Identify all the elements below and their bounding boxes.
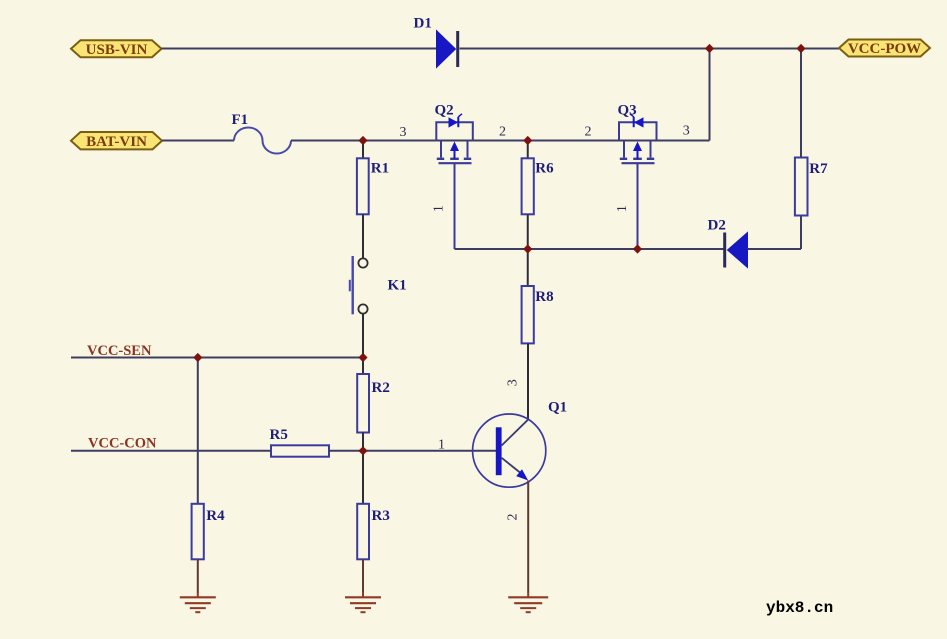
diode D1 <box>437 31 458 68</box>
power port flag BAT-VIN <box>71 132 162 150</box>
wire: R1 top lead <box>362 141 364 159</box>
wire: D1 cathode to VCC-POW flag <box>460 48 840 50</box>
junction dot rail / R6-R8 <box>523 244 532 253</box>
wire: Q1 emitter to ground <box>527 481 529 593</box>
wire: VCC-SEN row <box>71 357 363 359</box>
resistor R3 <box>357 504 369 560</box>
wire: Q2 to Q3 along BAT row <box>473 140 619 142</box>
wire: R8 bottom to Q1 collector <box>527 343 529 420</box>
svg-text:R3: R3 <box>372 508 390 524</box>
wire: R1 bottom to switch K1 <box>362 214 364 258</box>
svg-text:R2: R2 <box>372 380 390 396</box>
resistor R4 <box>192 504 204 560</box>
ground symbol under Q1 <box>508 592 548 612</box>
power port flag VCC-POW <box>839 40 930 58</box>
wire: BAT-VIN flag to fuse F1 <box>162 140 234 142</box>
junction dot VCC-SEN / K1-R2 <box>358 353 367 362</box>
wire: D2 anode to R7 column <box>748 248 802 250</box>
switch K1 <box>350 256 368 314</box>
diode D2 <box>725 233 748 268</box>
svg-text:BAT-VIN: BAT-VIN <box>86 134 147 150</box>
wire: R6 bottom to rail <box>527 214 529 249</box>
svg-text:1: 1 <box>432 205 447 212</box>
wire: R2 top lead <box>362 358 364 375</box>
junction dot R2/R3/R5 node <box>358 446 367 455</box>
resistor R7 <box>795 158 808 216</box>
wire: R5 to Q1 base <box>329 450 496 452</box>
transistor Q3 (P-MOSFET with body diode) <box>619 114 657 163</box>
svg-text:D1: D1 <box>414 16 432 32</box>
junction dot VCC-SEN / R4 <box>193 353 202 362</box>
transistor Q1 (NPN) <box>473 414 546 487</box>
wire: R3 top lead <box>362 451 364 504</box>
wire: fuse F1 to node at R1 <box>291 140 436 142</box>
wire: riser up to top wire <box>709 49 711 141</box>
wire: K1 bottom to VCC-SEN node <box>362 314 364 358</box>
svg-text:R1: R1 <box>371 161 389 177</box>
svg-text:2: 2 <box>585 125 592 140</box>
wire: R3 bottom to ground <box>362 559 364 592</box>
svg-text:R8: R8 <box>535 289 553 305</box>
svg-text:3: 3 <box>505 379 520 386</box>
wire: Q2 gate down to rail <box>454 163 456 249</box>
ground symbol under R3 <box>345 592 381 612</box>
svg-text:3: 3 <box>400 125 407 140</box>
svg-text:D2: D2 <box>708 218 726 234</box>
svg-text:F1: F1 <box>232 112 249 128</box>
fuse F1 <box>234 128 291 154</box>
resistor R5 <box>271 445 329 456</box>
wire: Q3 to riser <box>657 140 710 142</box>
svg-text:1: 1 <box>438 437 445 452</box>
ground symbol under R4 <box>180 592 216 612</box>
svg-text:Q3: Q3 <box>618 102 637 118</box>
svg-text:3: 3 <box>683 124 690 139</box>
svg-text:R4: R4 <box>206 508 225 524</box>
junction dot Q2-Q3 node / R6 <box>523 136 532 145</box>
wire: rail to R8 <box>527 249 529 286</box>
svg-text:Q1: Q1 <box>548 399 567 415</box>
transistor Q2 (P-MOSFET with body diode) <box>436 114 473 163</box>
svg-text:VCC-CON: VCC-CON <box>88 435 157 451</box>
wire: VCC-SEN node down to R4 <box>197 358 199 505</box>
resistor R8 <box>522 286 534 343</box>
wire: USB-VIN flag to D1 anode <box>162 48 437 50</box>
resistor R1 <box>357 158 369 214</box>
junction dot BAT node / R1 <box>358 136 367 145</box>
junction dot rail / Q3 gate <box>633 244 642 253</box>
svg-text:R6: R6 <box>535 161 554 177</box>
svg-text:USB-VIN: USB-VIN <box>86 42 148 58</box>
svg-text:1: 1 <box>615 205 630 212</box>
wire: R6 top lead <box>527 141 529 159</box>
wire: Q3 gate down to rail <box>637 163 639 249</box>
wire: R7 top lead up to top wire <box>800 49 802 158</box>
power port flag USB-VIN <box>71 40 162 58</box>
junction dot top wire / R7 <box>796 44 805 53</box>
wire: VCC-CON row to R5 <box>71 450 271 452</box>
wire: R4 bottom to ground <box>197 559 199 592</box>
svg-text:ybx8.cn: ybx8.cn <box>766 599 833 617</box>
resistor R6 <box>522 158 534 214</box>
wire: R7 bottom riser <box>800 215 802 249</box>
svg-text:VCC-POW: VCC-POW <box>848 41 921 57</box>
svg-text:K1: K1 <box>388 277 407 293</box>
svg-text:2: 2 <box>499 125 506 140</box>
svg-text:Q2: Q2 <box>435 102 454 118</box>
svg-text:R7: R7 <box>809 161 828 177</box>
resistor R2 <box>357 374 369 433</box>
svg-text:2: 2 <box>505 514 520 521</box>
wire: gate rail <box>455 248 724 250</box>
junction dot top wire / Q3 riser <box>705 44 714 53</box>
svg-text:R5: R5 <box>270 427 288 443</box>
wire: R2 bottom lead <box>362 433 364 451</box>
